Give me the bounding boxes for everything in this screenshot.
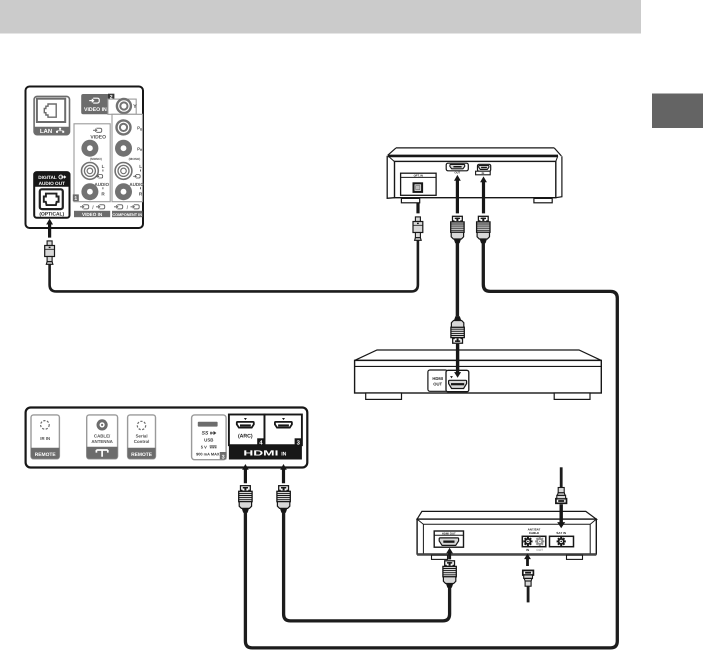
input 2 badge bbox=[108, 94, 114, 99]
HDMI IN black bar bbox=[229, 445, 302, 459]
svg-text:AUDIO: AUDIO bbox=[95, 182, 110, 187]
svg-text:OUT: OUT bbox=[455, 172, 461, 175]
svg-text:HDMI: HDMI bbox=[432, 376, 443, 381]
svg-text:SS: SS bbox=[202, 431, 209, 437]
svg-text:Serial: Serial bbox=[136, 434, 148, 439]
right edge chapter tab bbox=[652, 94, 703, 129]
Serial Control block bbox=[128, 415, 156, 459]
svg-text:USB: USB bbox=[204, 437, 213, 442]
COMPONENT IN column box bbox=[112, 114, 143, 201]
svg-text:(MONO): (MONO) bbox=[90, 157, 102, 161]
video bottom icons row bbox=[80, 205, 89, 209]
arrow up into ANT/SAT IN bbox=[524, 554, 531, 567]
svg-text:(MONO): (MONO) bbox=[129, 157, 141, 161]
svg-text:900 mA MAX: 900 mA MAX bbox=[196, 452, 220, 457]
optical plug at receiver end bbox=[413, 217, 423, 240]
HDMI cable receiver-left to player bbox=[456, 243, 459, 316]
arrow into HDMI IN 4 bbox=[242, 464, 249, 483]
CABLE/ANTENNA block bbox=[87, 415, 118, 459]
TV rear panel (top-left) bbox=[26, 87, 144, 229]
svg-text:LAN: LAN bbox=[40, 128, 52, 135]
receiver HDMI port plate right bbox=[478, 164, 491, 171]
PR jack bbox=[115, 140, 132, 157]
svg-text:SAT IN: SAT IN bbox=[556, 531, 566, 535]
component Y jack box bbox=[108, 99, 136, 114]
Y jack bbox=[116, 98, 132, 114]
svg-text:IR IN: IR IN bbox=[40, 436, 50, 441]
VIDEO IN 1 column box bbox=[74, 124, 110, 202]
input 1 badge bbox=[73, 194, 79, 201]
video jack bbox=[81, 140, 98, 157]
svg-text:OUT: OUT bbox=[433, 382, 442, 387]
arrow into receiver right HDMI bbox=[480, 176, 487, 213]
antenna coax cable below bbox=[527, 586, 530, 602]
player feet bbox=[366, 393, 402, 399]
svg-text:DIGITAL: DIGITAL bbox=[38, 175, 57, 180]
HDMI cable: TV HDMI3 to cable box HDMI OUT bbox=[284, 513, 450, 621]
svg-text:AUDIO: AUDIO bbox=[129, 182, 144, 187]
arrow into HDMI IN 3 bbox=[280, 464, 287, 483]
HDMI IN 4 (ARC) port box bbox=[229, 415, 265, 446]
svg-text:L: L bbox=[102, 164, 105, 169]
receiver optical input block bbox=[401, 173, 437, 195]
arrow into receiver left HDMI bbox=[454, 175, 461, 214]
coax OUT port bbox=[533, 535, 546, 548]
svg-text:VIDEO IN: VIDEO IN bbox=[84, 107, 107, 113]
HDMI plug up into cable box bbox=[443, 561, 456, 588]
HDMI plug below HDMI IN 4 bbox=[239, 486, 252, 513]
HDMI plug down into player bbox=[451, 316, 464, 343]
cable box feet bbox=[432, 555, 448, 559]
svg-text:3: 3 bbox=[222, 454, 225, 460]
svg-text:OPT. IN: OPT. IN bbox=[414, 175, 423, 178]
receiver HDMI port plate left bbox=[446, 163, 468, 171]
cable/satellite box (bottom right) bbox=[417, 511, 596, 519]
svg-text:5 V: 5 V bbox=[201, 445, 207, 450]
USB block bbox=[192, 415, 227, 460]
VIDEO IN gray bar bbox=[74, 211, 110, 217]
component bottom icons row bbox=[114, 205, 123, 209]
svg-text:Y: Y bbox=[133, 104, 137, 110]
svg-text:VIDEO IN: VIDEO IN bbox=[82, 212, 103, 217]
coax plug down toward SAT IN bbox=[556, 488, 567, 504]
svg-text:Control: Control bbox=[134, 439, 150, 444]
svg-text:CABLE/: CABLE/ bbox=[94, 434, 111, 439]
svg-text:VIDEO: VIDEO bbox=[90, 135, 106, 141]
HDMI IN 3 port box bbox=[265, 415, 302, 446]
cable box HDMI OUT block bbox=[434, 531, 463, 547]
svg-text:HDMI: HDMI bbox=[243, 449, 278, 458]
satellite coax cable from above bbox=[560, 467, 563, 488]
LAN port block bbox=[34, 96, 69, 134]
player HDMI OUT label box bbox=[428, 370, 448, 391]
HDMI plug up into receiver left port bbox=[451, 216, 464, 243]
top gray header bar bbox=[0, 0, 641, 34]
VIDEO IN 2 label block bbox=[81, 94, 109, 114]
L audio jack middle column bbox=[82, 163, 99, 180]
arrow into cable box HDMI OUT bbox=[446, 548, 453, 560]
player box (middle) bbox=[355, 350, 602, 360]
svg-text:L: L bbox=[139, 164, 142, 169]
L audio jack right column bbox=[115, 163, 132, 180]
svg-text:HDMI OUT: HDMI OUT bbox=[442, 532, 456, 536]
HDMI plug up into receiver right port bbox=[477, 216, 490, 243]
svg-text:ANTENNA: ANTENNA bbox=[91, 439, 113, 444]
TV side panel (bottom left) bbox=[26, 408, 308, 468]
PB jack bbox=[115, 119, 131, 135]
coax IN port bbox=[521, 535, 534, 548]
arrow into TV optical port bbox=[46, 219, 53, 238]
R audio jack right column bbox=[115, 183, 132, 200]
svg-text:AUDIO OUT: AUDIO OUT bbox=[39, 181, 65, 186]
COMPONENT IN gray bar bbox=[112, 211, 143, 217]
svg-text:REMOTE: REMOTE bbox=[35, 452, 57, 458]
svg-text:(OPTICAL): (OPTICAL) bbox=[39, 211, 64, 217]
arrow into receiver optical port bbox=[415, 191, 422, 213]
ARC HDMI cable: TV HDMI4 around page to receiver right port bbox=[245, 243, 617, 648]
SAT IN coax port box bbox=[550, 536, 574, 546]
receiver feet bbox=[401, 198, 419, 202]
arrow down into player HDMI OUT bbox=[454, 344, 461, 378]
player HDMI port box bbox=[446, 370, 469, 391]
svg-text:COMPONENT IN: COMPONENT IN bbox=[112, 213, 142, 217]
svg-text:IN: IN bbox=[281, 451, 286, 457]
svg-text:REMOTE: REMOTE bbox=[131, 452, 153, 458]
svg-text:CABLE: CABLE bbox=[529, 531, 539, 535]
HDMI plug below HDMI IN 3 bbox=[277, 486, 290, 513]
IR IN block bbox=[31, 415, 59, 459]
svg-text:OUT: OUT bbox=[536, 548, 543, 552]
R audio jack middle column bbox=[81, 183, 98, 200]
optical cable TV to receiver bbox=[50, 240, 418, 292]
receiver HDMI label box bbox=[476, 171, 491, 175]
DIGITAL AUDIO OUT block bbox=[34, 172, 69, 218]
svg-text:1: 1 bbox=[74, 196, 77, 202]
ANT/SAT coax port box bbox=[522, 536, 546, 546]
arrow down into SAT IN bbox=[557, 504, 565, 528]
receiver optical port bbox=[414, 183, 423, 192]
svg-text:(ARC): (ARC) bbox=[238, 434, 253, 440]
svg-text:IN: IN bbox=[482, 172, 485, 175]
antenna coax plug up toward ANT IN bbox=[523, 570, 534, 586]
optical plug at TV end bbox=[45, 241, 55, 264]
AV receiver box (top right) bbox=[387, 148, 562, 198]
